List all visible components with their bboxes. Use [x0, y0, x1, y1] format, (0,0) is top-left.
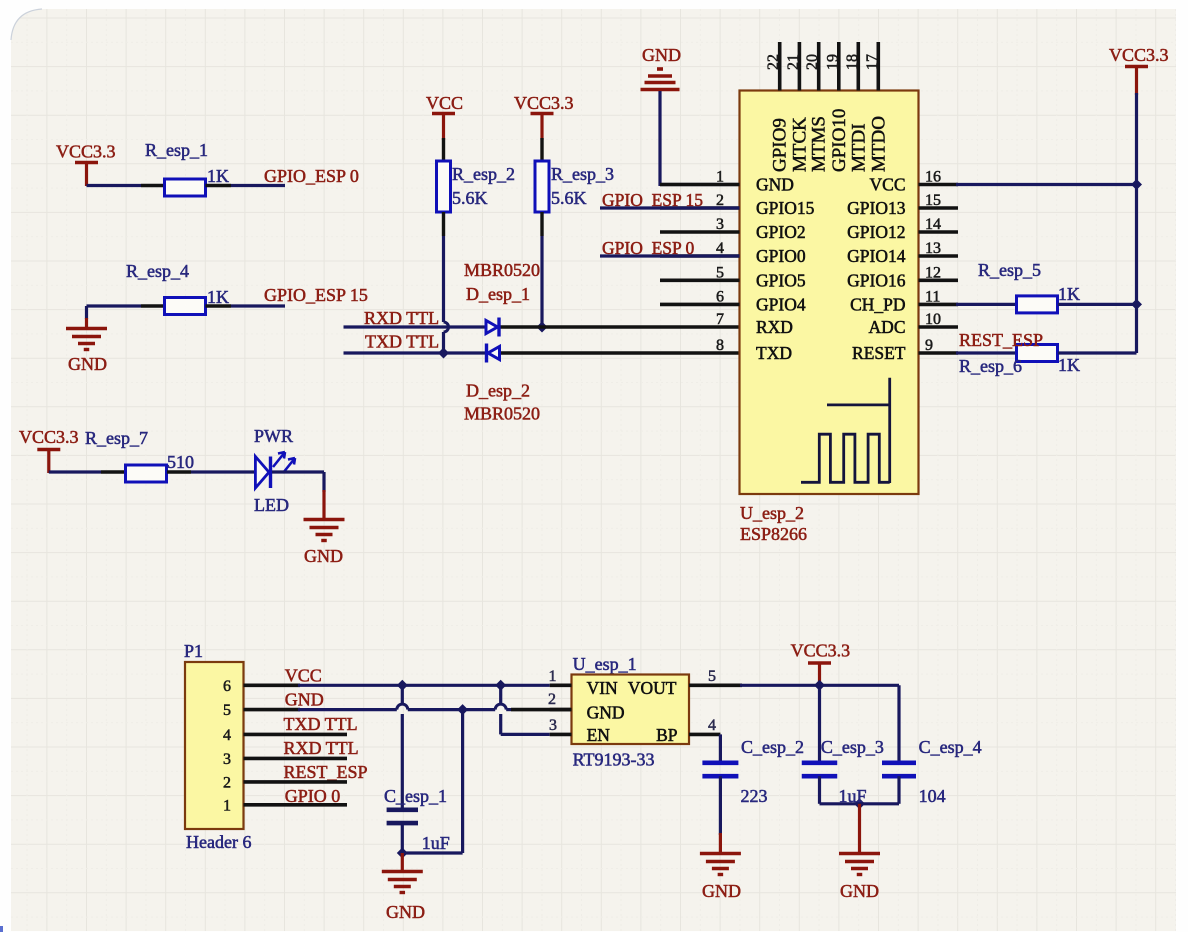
svg-text:1K: 1K [1058, 284, 1080, 304]
svg-text:5: 5 [708, 668, 716, 685]
svg-text:LED: LED [254, 495, 289, 515]
svg-text:GPIO0: GPIO0 [756, 246, 806, 266]
svg-text:GPIO2: GPIO2 [756, 222, 806, 242]
svg-text:MBR0520: MBR0520 [464, 260, 540, 280]
svg-text:MTMS: MTMS [809, 116, 830, 172]
svg-text:C_esp_4: C_esp_4 [919, 737, 982, 757]
svg-text:GPIO13: GPIO13 [847, 198, 906, 218]
svg-text:R_esp_4: R_esp_4 [126, 261, 189, 281]
svg-text:EN: EN [587, 725, 611, 745]
svg-text:R_esp_3: R_esp_3 [551, 164, 614, 184]
svg-text:VCC3.3: VCC3.3 [56, 142, 116, 162]
svg-text:6: 6 [223, 678, 231, 695]
svg-text:5.6K: 5.6K [551, 188, 587, 208]
svg-text:3: 3 [549, 717, 557, 734]
svg-text:TXD TTL: TXD TTL [365, 332, 439, 352]
svg-text:GPIO_ESP 0: GPIO_ESP 0 [264, 166, 359, 186]
svg-text:GND: GND [756, 175, 794, 195]
svg-text:1: 1 [716, 169, 724, 186]
svg-text:TXD: TXD [756, 343, 792, 363]
svg-text:MTCK: MTCK [789, 117, 810, 172]
svg-text:VCC3.3: VCC3.3 [19, 427, 79, 447]
svg-text:1: 1 [223, 797, 231, 814]
svg-text:GPIO10: GPIO10 [829, 109, 850, 172]
svg-text:3: 3 [223, 751, 231, 768]
svg-text:GND: GND [386, 902, 425, 922]
svg-text:17: 17 [864, 54, 881, 70]
svg-text:GPIO12: GPIO12 [847, 222, 905, 242]
svg-text:R_esp_6: R_esp_6 [959, 356, 1022, 376]
svg-text:4: 4 [708, 717, 716, 734]
svg-text:U_esp_2: U_esp_2 [740, 503, 804, 523]
svg-text:VCC3.3: VCC3.3 [791, 641, 851, 661]
svg-text:D_esp_1: D_esp_1 [466, 284, 530, 304]
svg-text:GND: GND [587, 703, 625, 723]
svg-text:VCC: VCC [426, 93, 463, 113]
svg-text:TXD TTL: TXD TTL [284, 714, 358, 734]
svg-text:D_esp_2: D_esp_2 [466, 381, 530, 401]
svg-text:510: 510 [167, 452, 194, 472]
svg-text:GND: GND [840, 881, 879, 901]
svg-text:5: 5 [223, 702, 231, 719]
svg-text:GND: GND [304, 546, 343, 566]
svg-text:1K: 1K [207, 166, 229, 186]
svg-text:3: 3 [716, 216, 724, 233]
svg-text:R_esp_2: R_esp_2 [452, 164, 515, 184]
svg-text:1K: 1K [207, 287, 229, 307]
svg-text:GPIO16: GPIO16 [847, 270, 906, 290]
svg-text:GPIO_ESP 15: GPIO_ESP 15 [264, 285, 368, 305]
svg-text:C_esp_2: C_esp_2 [741, 737, 804, 757]
svg-text:RESET: RESET [852, 343, 906, 363]
svg-text:GND: GND [702, 881, 741, 901]
svg-text:VCC3.3: VCC3.3 [514, 93, 574, 113]
svg-text:CH_PD: CH_PD [850, 294, 905, 314]
svg-text:GPIO14: GPIO14 [847, 246, 906, 266]
svg-text:RXD: RXD [756, 317, 793, 337]
svg-text:22: 22 [765, 54, 782, 70]
svg-text:U_esp_1: U_esp_1 [573, 654, 637, 674]
svg-text:6: 6 [716, 288, 724, 305]
svg-text:C_esp_1: C_esp_1 [384, 786, 447, 806]
svg-text:104: 104 [919, 786, 946, 806]
svg-text:VCC3.3: VCC3.3 [1109, 45, 1169, 65]
svg-text:1: 1 [549, 668, 557, 685]
svg-text:1uF: 1uF [422, 833, 450, 853]
svg-text:20: 20 [804, 54, 821, 70]
svg-text:ESP8266: ESP8266 [740, 524, 807, 544]
svg-text:223: 223 [741, 786, 768, 806]
svg-text:5: 5 [716, 264, 724, 281]
svg-text:REST_ESP: REST_ESP [959, 330, 1043, 350]
svg-text:1K: 1K [1058, 355, 1080, 375]
svg-text:21: 21 [785, 54, 802, 70]
svg-text:8: 8 [716, 337, 724, 354]
svg-text:GPIO4: GPIO4 [756, 294, 806, 314]
svg-text:RT9193-33: RT9193-33 [573, 750, 655, 770]
svg-text:VCC: VCC [285, 666, 322, 686]
svg-text:BP: BP [656, 725, 678, 745]
svg-text:18: 18 [844, 54, 861, 70]
svg-text:VCC: VCC [870, 175, 906, 195]
svg-text:5.6K: 5.6K [452, 188, 488, 208]
svg-text:C_esp_3: C_esp_3 [821, 737, 884, 757]
svg-text:GPIO15: GPIO15 [756, 198, 815, 218]
svg-text:2: 2 [223, 774, 231, 791]
svg-text:R_esp_5: R_esp_5 [978, 260, 1041, 280]
svg-text:REST_ESP: REST_ESP [284, 762, 368, 782]
svg-text:ADC: ADC [869, 317, 906, 337]
svg-text:MTDO: MTDO [868, 116, 889, 172]
svg-text:RXD TTL: RXD TTL [284, 738, 359, 758]
svg-text:GPIO9: GPIO9 [770, 118, 791, 172]
svg-text:GND: GND [285, 690, 324, 710]
svg-text:R_esp_1: R_esp_1 [145, 140, 208, 160]
svg-text:VOUT: VOUT [628, 678, 677, 698]
svg-text:GND: GND [642, 45, 681, 65]
svg-text:4: 4 [223, 727, 231, 744]
svg-text:Header 6: Header 6 [186, 832, 251, 852]
svg-text:R_esp_7: R_esp_7 [85, 428, 148, 448]
svg-text:19: 19 [824, 54, 841, 70]
svg-text:GND: GND [68, 354, 107, 374]
svg-text:PWR: PWR [254, 426, 293, 446]
svg-text:1uF: 1uF [839, 786, 867, 806]
svg-text:VIN: VIN [587, 678, 618, 698]
svg-text:MTDI: MTDI [848, 123, 869, 172]
svg-text:P1: P1 [184, 641, 203, 661]
svg-text:RXD TTL: RXD TTL [364, 308, 439, 328]
svg-text:7: 7 [716, 311, 724, 328]
svg-text:MBR0520: MBR0520 [464, 404, 540, 424]
svg-text:2: 2 [548, 691, 556, 708]
svg-text:GPIO5: GPIO5 [756, 270, 806, 290]
